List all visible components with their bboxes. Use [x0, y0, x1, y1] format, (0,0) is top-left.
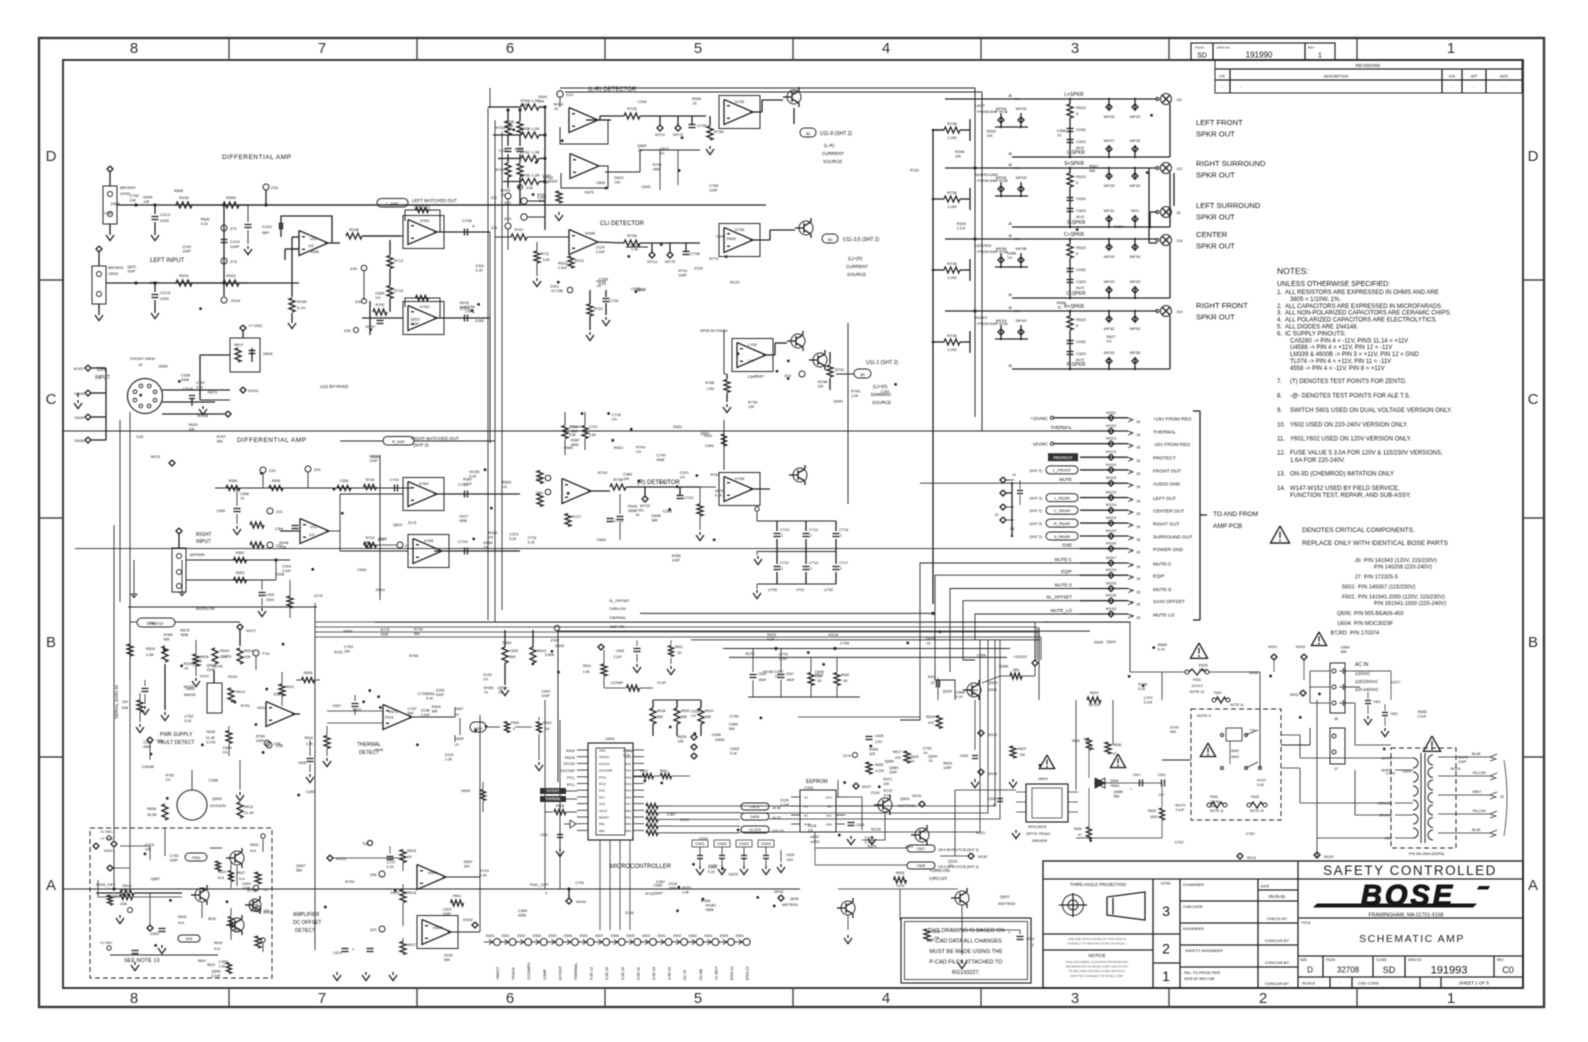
svg-text:4558: 4558 — [656, 458, 664, 462]
svg-text:5: 5 — [1130, 470, 1132, 474]
svg-text:R763: R763 — [711, 473, 720, 477]
svg-text:5.1K: 5.1K — [426, 696, 434, 700]
svg-text:CURRENT: CURRENT — [822, 151, 844, 156]
svg-text:E506: E506 — [736, 934, 744, 938]
svg-text:R743: R743 — [414, 627, 423, 631]
svg-text:RIGHT MATCHED OUT: RIGHT MATCHED OUT — [411, 436, 459, 441]
svg-text:8: 8 — [130, 40, 138, 57]
svg-text:1%: 1% — [969, 693, 974, 697]
svg-text:A.1K: A.1K — [297, 305, 306, 310]
svg-text:-@- DENOTES TEST POINTS FOR AL: -@- DENOTES TEST POINTS FOR ALE T.S. — [1290, 394, 1411, 400]
svg-text:2.2uF: 2.2uF — [1199, 668, 1208, 672]
svg-text:RCO: RCO — [599, 782, 606, 786]
svg-text:DESCRIPTION: DESCRIPTION — [1324, 75, 1349, 79]
svg-text:W124: W124 — [1106, 567, 1117, 572]
svg-text:1.0M: 1.0M — [706, 387, 714, 391]
svg-text:R311: R311 — [385, 716, 394, 720]
svg-text:PTCL: PTCL — [567, 776, 575, 780]
svg-text:EXAMINER: EXAMINER — [1183, 882, 1204, 887]
svg-text:Z60: Z60 — [264, 909, 270, 913]
svg-text:+15VMC: +15VMC — [1030, 416, 1048, 421]
svg-text:2200: 2200 — [266, 598, 274, 602]
svg-text:.01: .01 — [554, 107, 559, 111]
svg-text:C385: C385 — [104, 211, 113, 215]
svg-text:C775: C775 — [779, 652, 788, 656]
svg-text:CLASS: CLASS — [1376, 958, 1386, 962]
svg-text:47K: 47K — [928, 721, 935, 725]
svg-text:08-06-91: 08-06-91 — [1269, 894, 1286, 899]
svg-text:R787: R787 — [1114, 225, 1123, 229]
svg-text:R627: R627 — [1106, 335, 1115, 339]
svg-text:R515: R515 — [1076, 105, 1086, 110]
svg-text:D616: D616 — [1249, 671, 1258, 675]
svg-text:C607: C607 — [333, 704, 341, 708]
svg-text:U11-8 (SHT 2): U11-8 (SHT 2) — [820, 131, 852, 137]
svg-text:W114: W114 — [554, 102, 564, 106]
svg-text:100P: 100P — [443, 912, 452, 916]
svg-text:1%: 1% — [1007, 256, 1012, 260]
svg-text:D686: D686 — [111, 202, 120, 206]
svg-text:4?: 4? — [1078, 833, 1082, 837]
svg-text:J8: J8 — [1008, 163, 1012, 167]
svg-text:SAFETY CONTROLLED: SAFETY CONTROLLED — [1323, 863, 1497, 878]
svg-text:C757: C757 — [1246, 832, 1255, 836]
svg-text:C762: C762 — [184, 715, 193, 719]
svg-text:NOTE 11: NOTE 11 — [1210, 809, 1224, 813]
svg-text:R371: R371 — [883, 777, 892, 781]
svg-text:CA5280 -> PIN 4 = -11V, PINS 1: CA5280 -> PIN 4 = -11V, PINS 11,14 = +11… — [1290, 338, 1408, 344]
svg-text:R791: R791 — [334, 650, 343, 654]
svg-text:WF26: WF26 — [1104, 254, 1115, 259]
svg-text:Q654: Q654 — [498, 686, 507, 690]
svg-text:K763: K763 — [420, 304, 430, 309]
svg-text:10K: 10K — [614, 180, 621, 184]
svg-text:1.6A FOR 220-240V.: 1.6A FOR 220-240V. — [1290, 458, 1345, 464]
svg-text:N104: N104 — [74, 415, 84, 420]
svg-text:MUTE: MUTE — [1059, 477, 1072, 482]
svg-text:.2F: .2F — [930, 681, 935, 685]
svg-text:NOTICE: NOTICE — [1088, 953, 1105, 958]
svg-text:3D: 3D — [860, 372, 865, 377]
svg-text:R602: R602 — [146, 647, 155, 651]
svg-text:F603: F603 — [1251, 795, 1259, 799]
svg-text:MICROCONTROLLER: MICROCONTROLLER — [610, 864, 672, 870]
svg-text:4558: 4558 — [181, 378, 189, 382]
svg-text:13.: 13. — [1277, 472, 1286, 478]
svg-text:W132: W132 — [1106, 606, 1117, 611]
svg-text:Z116: Z116 — [476, 264, 484, 268]
svg-text:10: 10 — [1130, 536, 1134, 540]
svg-text:C026: C026 — [1076, 339, 1086, 344]
svg-text:R617: R617 — [407, 943, 416, 947]
svg-text:ILSD-11: ILSD-11 — [636, 967, 640, 980]
svg-text:R641: R641 — [660, 769, 668, 773]
svg-text:R621: R621 — [943, 762, 952, 766]
svg-text:D654: D654 — [502, 641, 511, 645]
svg-text:1.0K: 1.0K — [279, 546, 287, 550]
svg-text:R603: R603 — [220, 649, 229, 653]
svg-text:D614: D614 — [376, 588, 385, 592]
svg-text:C648: C648 — [815, 670, 824, 674]
svg-text:C699: C699 — [223, 746, 232, 750]
svg-text:1%: 1% — [612, 418, 617, 422]
svg-text:R369: R369 — [692, 97, 701, 101]
svg-text:C641: C641 — [542, 689, 551, 693]
svg-text:PTCL: PTCL — [599, 775, 607, 779]
svg-text:C620: C620 — [509, 649, 518, 653]
svg-text:Z08: Z08 — [274, 742, 281, 746]
svg-text:10K: 10K — [955, 154, 962, 158]
svg-text:56K: 56K — [652, 519, 659, 523]
svg-text:2.2uF: 2.2uF — [613, 655, 622, 659]
svg-text:5.1K: 5.1K — [956, 695, 964, 699]
svg-text:R320: R320 — [183, 662, 192, 666]
svg-text:W147-W152 USED BY FIELD SERVIC: W147-W152 USED BY FIELD SERVICE, — [1290, 486, 1400, 492]
svg-text:R673: R673 — [389, 710, 398, 714]
svg-text:SCK: SCK — [599, 802, 605, 806]
svg-text:LRCK: LRCK — [750, 805, 760, 809]
svg-text:WRITTEN CONSENT OF BOSE CORP.: WRITTEN CONSENT OF BOSE CORP. — [1070, 974, 1123, 978]
svg-text:CONCUR-BY: CONCUR-BY — [1265, 960, 1290, 965]
svg-text:APP: APP — [1471, 75, 1477, 79]
svg-text:Q644: Q644 — [928, 755, 937, 759]
svg-text:SEE NOTE 13: SEE NOTE 13 — [124, 958, 159, 964]
svg-text:U11-3,6 (SHT 2): U11-3,6 (SHT 2) — [843, 237, 880, 243]
svg-text:MUTE-S: MUTE-S — [1055, 583, 1072, 588]
svg-text:(L)+(R): (L)+(R) — [873, 384, 888, 389]
svg-text:Q680: Q680 — [637, 144, 646, 148]
svg-text:C694: C694 — [357, 568, 366, 572]
svg-text:1: 1 — [1447, 990, 1455, 1007]
svg-text:PB3: PB3 — [625, 816, 631, 820]
svg-text:MUTE LO: MUTE LO — [1153, 613, 1175, 619]
svg-text:C1C3: C1C3 — [160, 290, 171, 295]
svg-text:10K: 10K — [677, 739, 684, 743]
svg-text:C717: C717 — [839, 561, 848, 565]
svg-text:2604: 2604 — [905, 845, 913, 849]
svg-text:P-CAD DATA ALL CHANGES: P-CAD DATA ALL CHANGES — [930, 939, 1002, 945]
svg-text:1: 1 — [1162, 968, 1170, 984]
svg-text:100P: 100P — [206, 668, 215, 672]
svg-text:C797: C797 — [196, 381, 205, 385]
svg-text:T7A: T7A — [262, 651, 270, 656]
svg-text:J8: J8 — [1008, 364, 1012, 368]
svg-text:FRONT VIEW: FRONT VIEW — [130, 356, 155, 361]
svg-text:362K: 362K — [1150, 815, 1159, 819]
svg-text:R301: R301 — [226, 273, 236, 278]
svg-text:DATE: DATE — [1500, 75, 1508, 79]
svg-text:100P: 100P — [889, 771, 898, 775]
svg-text:F601:: F601: — [1342, 595, 1357, 601]
svg-text:C765: C765 — [840, 641, 849, 645]
svg-text:.01: .01 — [483, 690, 488, 694]
svg-text:R310: R310 — [614, 446, 623, 450]
svg-text:J8: J8 — [1008, 222, 1012, 226]
svg-text:C384: C384 — [518, 909, 527, 913]
svg-text:.01: .01 — [992, 803, 997, 807]
svg-text:R612: R612 — [244, 805, 253, 809]
svg-text:Z157: Z157 — [681, 818, 690, 822]
svg-text:C338: C338 — [209, 778, 218, 782]
svg-text:W115: W115 — [1106, 475, 1117, 480]
svg-text:W712: W712 — [655, 133, 665, 137]
svg-text:W196: W196 — [763, 670, 773, 674]
svg-text:AMPLIFIER: AMPLIFIER — [293, 912, 320, 918]
svg-text:ALL DIODES ARE 1N4148.: ALL DIODES ARE 1N4148. — [1285, 325, 1358, 331]
svg-text:R154: R154 — [228, 675, 237, 679]
svg-text:10K: 10K — [464, 864, 471, 868]
svg-text:D641: D641 — [538, 95, 547, 99]
svg-text:E500: E500 — [642, 934, 650, 938]
svg-text:J4: J4 — [1012, 473, 1016, 477]
svg-text:PB1: PB1 — [599, 822, 605, 826]
svg-text:PA4: PA4 — [626, 782, 632, 786]
svg-text:TL074 -> PIN 4 = +11V, PIN 1: TL074 -> PIN 4 = +11V, PIN 11 = -11V — [1290, 359, 1391, 365]
svg-text:R336: R336 — [275, 572, 284, 576]
svg-text:PC6: PC6 — [599, 789, 605, 793]
svg-text:Z124: Z124 — [596, 246, 605, 250]
svg-text:WF72: WF72 — [673, 133, 683, 137]
svg-text:U604: U604 — [1038, 776, 1048, 781]
svg-text:Z175: Z175 — [408, 521, 417, 525]
svg-text:J6:: J6: — [1355, 558, 1363, 564]
svg-text:D610: D610 — [614, 176, 623, 180]
svg-text:C767: C767 — [1175, 841, 1184, 845]
svg-text:E509: E509 — [626, 934, 634, 938]
svg-text:R605: R605 — [207, 730, 215, 734]
svg-text:R719: R719 — [480, 869, 489, 873]
svg-text:Z183: Z183 — [436, 689, 445, 693]
svg-text:THERMAL: THERMAL — [545, 797, 560, 801]
svg-text:BROWN: BROWN — [120, 185, 135, 190]
svg-text:.01: .01 — [498, 690, 503, 694]
svg-text:100P: 100P — [256, 739, 265, 743]
svg-text:FAULT DETECT: FAULT DETECT — [158, 740, 195, 746]
svg-text:D653: D653 — [869, 748, 878, 752]
svg-text:C02: C02 — [136, 434, 144, 439]
svg-text:R619: R619 — [214, 941, 222, 945]
svg-text:A: A — [1528, 877, 1538, 894]
svg-text:C792: C792 — [130, 194, 139, 198]
svg-text:E502: E502 — [517, 934, 525, 938]
svg-text:WHITE: WHITE — [1381, 757, 1392, 761]
svg-text:1%: 1% — [808, 829, 813, 833]
svg-text:Z18: Z18 — [271, 185, 279, 190]
svg-text:Z190: Z190 — [694, 267, 703, 271]
svg-text:INPUT: INPUT — [196, 539, 211, 545]
svg-text:NOTE 9: NOTE 9 — [1197, 714, 1211, 718]
svg-text:2: 2 — [1130, 431, 1132, 435]
svg-text:R64?: R64? — [198, 959, 206, 963]
svg-text:E508: E508 — [611, 934, 619, 938]
svg-text:R794: R794 — [636, 445, 645, 449]
svg-text:11: 11 — [1130, 549, 1134, 553]
svg-text:C708: C708 — [690, 251, 700, 256]
svg-text:C668: C668 — [240, 492, 249, 496]
svg-text:CURRENT: CURRENT — [846, 264, 868, 269]
svg-text:D668: D668 — [652, 514, 661, 518]
svg-text:PB5: PB5 — [625, 829, 631, 833]
svg-text:N.A.: N.A. — [214, 947, 221, 951]
svg-text:WF30: WF30 — [1130, 183, 1141, 188]
svg-text:AUX: AUX — [1076, 214, 1085, 219]
svg-text:(SHT 2): (SHT 2) — [1029, 497, 1042, 501]
svg-text:.1: .1 — [839, 534, 842, 538]
svg-text:56K: 56K — [538, 100, 545, 104]
svg-text:+: + — [352, 947, 355, 952]
svg-text:TURN-ON: TURN-ON — [929, 868, 950, 873]
svg-text:SOUT: SOUT — [599, 809, 608, 813]
svg-text:R319: R319 — [623, 749, 632, 753]
svg-text:C321: C321 — [443, 908, 452, 912]
svg-text:D697: D697 — [654, 891, 663, 895]
svg-text:R360: R360 — [229, 479, 238, 483]
svg-text:4: 4 — [1130, 457, 1132, 461]
svg-text:D685: D685 — [1007, 252, 1016, 256]
svg-text:Z150: Z150 — [483, 673, 492, 677]
svg-text:3.3V: 3.3V — [875, 740, 883, 744]
svg-text:T10: T10 — [262, 888, 268, 892]
svg-text:C628: C628 — [875, 734, 883, 738]
svg-text:1: 1 — [1318, 53, 1322, 60]
svg-text:R604: R604 — [244, 649, 253, 653]
svg-text:R762: R762 — [910, 168, 919, 172]
svg-text:C713: C713 — [809, 561, 818, 565]
svg-text:R325: R325 — [548, 180, 557, 184]
svg-text:WF30: WF30 — [1130, 114, 1141, 119]
svg-text:C323: C323 — [1076, 351, 1086, 356]
svg-text:3: 3 — [1071, 40, 1079, 57]
svg-text:R_REAR: R_REAR — [1054, 521, 1070, 526]
svg-text:4558: 4558 — [518, 914, 526, 918]
svg-text:ON-3D (CHEMROD) IMITATION ONLY: ON-3D (CHEMROD) IMITATION ONLY — [1290, 472, 1394, 478]
svg-text:56K: 56K — [729, 727, 736, 731]
svg-text:PB2: PB2 — [625, 809, 631, 813]
svg-text:THERMAL: THERMAL — [1050, 425, 1072, 430]
svg-text:3805 = 1/10W, 1%.: 3805 = 1/10W, 1%. — [1290, 297, 1341, 303]
svg-text:WF04: WF04 — [996, 106, 1007, 111]
svg-text:C604B: C604B — [142, 765, 154, 769]
svg-text:+1 VNC: +1 VNC — [100, 830, 113, 834]
svg-text:R632: R632 — [201, 217, 210, 221]
svg-text:E504: E504 — [548, 934, 556, 938]
svg-text:C610: C610 — [333, 951, 342, 955]
svg-text:WF52: WF52 — [1130, 326, 1141, 331]
svg-text:U730: U730 — [768, 588, 777, 592]
svg-text:LEFT MATCHED OUT: LEFT MATCHED OUT — [412, 198, 457, 203]
svg-text:DTCON: DTCON — [564, 762, 576, 766]
svg-text:C640: C640 — [716, 234, 725, 238]
svg-text:C328: C328 — [181, 373, 190, 377]
svg-text:W153: W153 — [500, 189, 510, 193]
svg-text:Z20: Z20 — [122, 700, 128, 704]
svg-text:WATTROD: WATTROD — [782, 903, 798, 907]
svg-text:R325: R325 — [1199, 664, 1208, 668]
svg-text:C687: C687 — [542, 174, 551, 178]
svg-text:1.0W: 1.0W — [947, 347, 957, 352]
svg-text:U4588 -> PIN 4 = +11V, PIN 12: U4588 -> PIN 4 = +11V, PIN 12 = -11V — [1290, 345, 1392, 351]
svg-text:GND: GND — [1062, 543, 1073, 548]
svg-text:NG02: NG02 — [1296, 645, 1305, 649]
svg-text:Z30: Z30 — [344, 328, 352, 333]
svg-text:D: D — [1307, 966, 1313, 975]
svg-text:C631: C631 — [540, 833, 548, 837]
svg-text:12.: 12. — [1277, 451, 1286, 457]
svg-text:K705: K705 — [735, 227, 745, 232]
svg-text:4558: 4558 — [628, 509, 636, 513]
svg-text:P/N WA-2594 (S02PA): P/N WA-2594 (S02PA) — [1409, 852, 1444, 856]
svg-text:RESET: RESET — [599, 816, 609, 820]
svg-text:C617: C617 — [786, 672, 794, 676]
svg-text:NOTE 11: NOTE 11 — [1230, 703, 1244, 707]
svg-text:R387: R387 — [571, 438, 580, 442]
svg-text:C628: C628 — [917, 864, 925, 868]
svg-text:DC-BB: DC-BB — [699, 968, 703, 980]
svg-text:N.A.: N.A. — [250, 849, 257, 853]
svg-text:8: 8 — [1130, 510, 1132, 514]
svg-text:10K: 10K — [244, 655, 251, 659]
svg-text:Z126: Z126 — [871, 791, 880, 795]
svg-text:1.5K: 1.5K — [146, 653, 154, 657]
svg-text:P509: P509 — [511, 721, 519, 725]
svg-text:SL_OFFSET: SL_OFFSET — [1046, 595, 1072, 600]
svg-text:R611: R611 — [583, 664, 591, 668]
svg-text:100P: 100P — [411, 322, 420, 326]
svg-text:2.2uF: 2.2uF — [282, 569, 291, 573]
svg-text:3D: 3D — [805, 131, 810, 136]
svg-text:NFC5: NFC5 — [151, 455, 160, 459]
svg-text:C334: C334 — [977, 653, 986, 657]
svg-text:R715: R715 — [598, 471, 607, 475]
svg-text:3: 3 — [1130, 444, 1132, 448]
svg-text:5.1K: 5.1K — [730, 752, 738, 756]
svg-text:4: 4 — [882, 40, 890, 57]
svg-text:B: B — [1528, 634, 1538, 651]
svg-text:FUSE VALUE 5 3.0A FOR 120V &: FUSE VALUE 5 3.0A FOR 120V & 115/230V VE… — [1290, 451, 1443, 457]
svg-text:R+SPKR: R+SPKR — [1064, 304, 1085, 310]
svg-text:R737: R737 — [884, 789, 893, 793]
svg-text:N.A.: N.A. — [239, 877, 245, 881]
svg-text:SAFETY ENGINEER: SAFETY ENGINEER — [1185, 948, 1223, 953]
svg-text:10K: 10K — [344, 650, 351, 654]
svg-text:Z15: Z15 — [276, 510, 282, 514]
svg-text:ILSD-16: ILSD-16 — [668, 967, 672, 980]
svg-text:10K: 10K — [189, 428, 196, 432]
svg-text:C: C — [1528, 391, 1539, 408]
svg-text:F602: F602 — [1210, 795, 1218, 799]
svg-text:W126: W126 — [871, 827, 881, 831]
svg-text:4: 4 — [882, 990, 890, 1007]
svg-text:R615: R615 — [407, 849, 416, 853]
svg-text:PA1: PA1 — [626, 762, 632, 766]
svg-text:CR20: CR20 — [108, 271, 119, 276]
svg-text:R302: R302 — [236, 551, 245, 555]
svg-text:R739: R739 — [748, 400, 757, 404]
svg-text:C761: C761 — [635, 509, 644, 513]
svg-text:1%: 1% — [680, 476, 685, 480]
svg-text:+REFLT: +REFLT — [496, 966, 500, 980]
svg-text:49.9K: 49.9K — [147, 813, 157, 817]
svg-text:ALL NON-POLARIZED CAPACITORS A: ALL NON-POLARIZED CAPACITORS ARE CERAMIC… — [1285, 311, 1452, 317]
svg-text:10K: 10K — [130, 199, 137, 203]
svg-text:7: 7 — [1130, 498, 1132, 502]
svg-text:E505: E505 — [720, 934, 728, 938]
svg-text:DCCOMP: DCCOMP — [561, 769, 575, 773]
svg-text:C617: C617 — [1133, 773, 1141, 777]
svg-text:ILSD 12: ILSD 12 — [590, 967, 594, 980]
svg-text:100P: 100P — [1458, 760, 1467, 764]
svg-text:W14?: W14? — [862, 785, 871, 789]
